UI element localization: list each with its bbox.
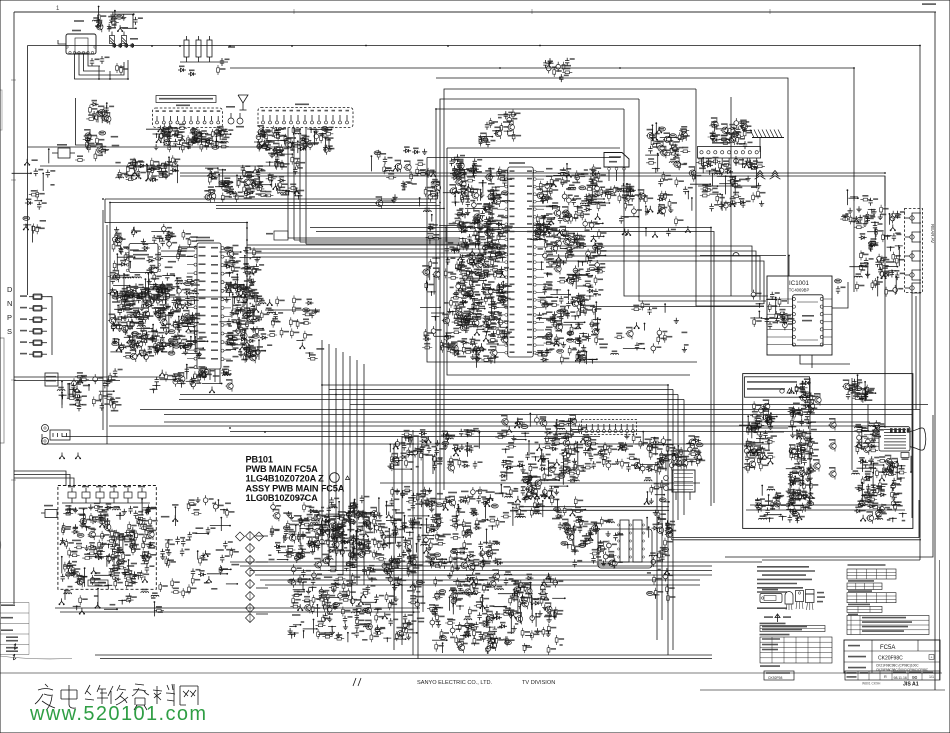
wire [101,113,103,123]
resistor [323,132,333,135]
wire [224,190,232,192]
resistor [178,247,181,257]
resistor [463,319,473,322]
wire [183,326,194,328]
transistor [422,267,430,278]
label [259,181,264,183]
resistor [247,293,257,296]
svg-text:ASSY PWB MAIN FC5A: ASSY PWB MAIN FC5A [246,484,345,494]
ground [192,135,197,141]
wire mid long pair a [109,425,885,427]
capacitor [736,126,740,134]
wire IC201 feeder left b [109,203,111,321]
ground [146,290,150,296]
resistor [594,246,604,249]
diode [119,263,127,267]
label [538,248,543,250]
capacitor [71,383,75,391]
electrolytic capacitor [593,242,598,252]
ground [391,197,396,203]
wire [178,246,195,248]
resistor [96,136,99,146]
transistor [498,293,506,304]
resistor [67,397,77,400]
resistor [757,189,760,199]
resistor [453,172,463,175]
label [115,234,120,236]
inductor [176,283,184,284]
svg-text:W801 CK9H: W801 CK9H [862,682,881,686]
wire [115,13,134,15]
wire [543,217,545,235]
capacitor [658,179,662,187]
label [229,196,232,198]
junction [98,78,100,80]
transistor [550,243,558,254]
capacitor [479,297,483,305]
label [574,235,582,237]
IC201 video chroma IC body [197,243,221,369]
wire [762,317,776,319]
capacitor [122,304,126,312]
electrolytic capacitor [543,251,548,261]
resistor [658,204,661,214]
wire [271,153,292,155]
wire [123,274,125,293]
capacitor [462,169,466,177]
wire IC601 frame top a [427,157,620,159]
resistor [243,168,246,178]
label [250,266,254,268]
ground [484,228,489,234]
electrolytic capacitor [111,321,116,331]
label [265,149,270,151]
resistor [266,138,269,148]
wire IC201 top bus d [216,208,444,210]
wire IC201 bottom drops [199,369,201,376]
label [172,375,175,377]
resistor [572,273,582,276]
wire [186,380,192,382]
capacitor [683,186,687,194]
resistor [467,268,470,278]
transistor [471,317,479,328]
resistor [230,338,240,341]
wire [215,136,217,146]
ground [668,207,673,213]
ground [125,291,129,297]
wire [245,273,253,275]
resistor [303,139,306,149]
resistor [488,339,498,342]
resistor [156,311,166,314]
resistor [291,141,294,151]
wire right edge bundle b [915,296,917,410]
label [460,227,464,229]
wire [328,139,330,148]
electrolytic capacitor [472,200,477,210]
capacitor [559,296,563,304]
ground [158,126,162,132]
resistor [418,172,428,175]
resistor [262,128,265,138]
ground [478,215,482,221]
capacitor [150,335,154,343]
junction [470,349,478,353]
capacitor [566,301,570,309]
resistor [471,336,474,346]
capacitor [540,196,544,204]
electrolytic capacitor [783,320,788,330]
electrolytic capacitor [499,282,504,292]
svg-text:CK92F98: CK92F98 [768,676,782,680]
label [739,178,747,180]
diode [590,172,598,176]
capacitor [465,325,469,333]
capacitor [454,290,458,298]
resistor [237,293,240,303]
ground [158,339,163,345]
resistor [427,168,430,178]
resistor [595,270,605,273]
capacitor [537,312,541,320]
resistor [181,313,184,323]
svg-text:CK20F98C: CK20F98C [878,656,903,662]
capacitor [231,260,235,268]
label [148,346,155,348]
label [281,194,288,196]
resistor [189,132,199,135]
transistor [129,341,137,352]
resistor [536,214,539,224]
ground [173,159,178,165]
SIF box pins [126,247,129,250]
capacitor [186,141,190,149]
label [186,318,194,320]
ground [549,218,553,224]
label [184,320,188,322]
transistor [728,134,736,145]
resistor [292,125,295,135]
resistor [122,307,132,310]
wire [110,351,121,353]
line filter L104 [207,40,212,57]
ground [682,347,687,353]
capacitor [193,338,197,346]
wire [456,169,469,171]
degauss posistor box [58,148,70,158]
electrolytic capacitor [562,191,567,201]
wire [496,175,504,177]
wire [585,352,587,364]
resistor [244,174,254,177]
resistor [253,247,256,257]
transistor [658,206,666,217]
resistor [482,281,485,291]
capacitor [147,167,151,175]
wire [168,313,170,332]
capacitor [465,242,469,250]
resistor [168,142,171,152]
transistor [462,314,470,325]
label [241,359,247,361]
diode [468,312,476,316]
resistor [474,228,477,238]
resistor [199,139,209,142]
diode [673,153,681,157]
capacitor [465,243,469,251]
ground [458,285,462,291]
wire [194,327,196,340]
resistor [561,177,564,187]
electrolytic capacitor [431,326,436,336]
label [495,340,498,342]
resistor [258,194,268,197]
diode [170,169,178,173]
resistor [87,143,90,153]
capacitor [621,183,625,191]
wire tuner loop 4 [88,54,100,66]
wire [664,304,666,313]
ground [465,209,470,215]
capacitor [192,131,196,139]
IC201 left pins [194,246,197,249]
filter FL601 [228,118,234,124]
wire bus pack b [250,248,505,250]
diode [167,344,175,348]
transistor [226,381,234,392]
electrolytic capacitor [507,115,512,125]
resistor [711,160,721,163]
wire tuner loop 3 [84,54,106,71]
wire [478,220,480,240]
ground [488,254,493,260]
wire [592,255,605,257]
wire [498,114,516,116]
capacitor [113,368,117,376]
label [504,227,512,229]
test point [321,127,328,131]
label [496,292,503,294]
wire [477,216,479,230]
test point [184,282,191,286]
resistor [176,128,179,138]
label [595,201,603,203]
junction [601,193,609,197]
diode [482,274,490,278]
resistor [177,251,180,261]
diode [91,103,99,107]
wire [484,288,494,290]
junction [559,261,567,265]
ground [110,288,114,294]
ground [157,315,162,321]
diode [541,358,549,362]
sheet bottom rule [0,672,942,674]
transistor [554,238,562,249]
electrolytic capacitor [566,195,571,205]
resistor [86,118,96,121]
label [244,280,249,282]
junction [455,351,463,355]
resistor [118,170,121,180]
resistor [276,183,279,193]
resistor [292,304,295,314]
wire [589,198,604,200]
ground [168,309,173,315]
capacitor [635,342,639,350]
test point [495,252,502,256]
resistor [662,153,672,156]
ground [457,168,462,174]
ground [627,185,632,191]
capacitor [103,380,107,388]
junction [428,292,436,296]
resistor [457,281,467,284]
resistor [663,333,666,343]
cap can 2 [122,36,127,44]
inductor [568,187,576,188]
label [176,104,190,106]
capacitor [157,162,161,170]
inductor [452,250,460,251]
capacitor [156,292,160,300]
capacitor [488,207,492,215]
label [742,163,747,165]
label [624,198,628,200]
capacitor [185,366,189,374]
wire IC201 feeder left a [105,199,248,223]
capacitor [233,191,237,199]
wire [491,298,493,317]
diode [460,300,468,304]
ground [595,213,599,219]
capacitor [471,284,475,292]
wire [114,11,116,28]
junction [451,250,459,254]
resistor [472,303,482,306]
capacitor [589,176,593,184]
wire h409 line [140,410,920,538]
wire bottom bus b3 [250,570,712,572]
wire [766,299,776,301]
wire IC201 top bus b [110,202,436,204]
ground [554,340,558,346]
junction [307,129,315,133]
ground [197,351,202,357]
transistor [449,186,457,197]
wire [498,296,504,298]
ground [713,168,718,174]
svg-text:TV DIVISION: TV DIVISION [522,680,555,686]
label [481,226,487,228]
wire [182,352,200,354]
label [190,330,199,332]
resistor [126,290,129,300]
ground [273,183,277,189]
wire bottom-left feeder b [14,475,70,487]
transistor [578,352,586,363]
resistor [168,124,171,134]
diode [138,164,146,168]
transistor [486,239,494,250]
label [593,221,598,223]
capacitor [111,397,115,405]
tuner TU101 [66,34,96,54]
ground [550,316,555,322]
ground [431,170,435,176]
label [229,284,236,286]
capacitor [167,134,171,142]
wire [426,283,428,291]
connector CN102 dashed outline [153,108,223,128]
junction [449,312,457,316]
electrolytic capacitor [160,281,165,291]
svg-text:PWB MAIN FC5A: PWB MAIN FC5A [246,464,319,474]
resistor [460,192,463,202]
label [151,278,160,280]
connector CN102 pins [156,121,159,124]
wire [146,128,166,130]
resistor [562,62,565,72]
inductor [424,211,432,212]
wire [161,342,180,344]
resistor [457,303,460,313]
transistor [451,343,459,354]
resistor [719,138,729,141]
IC601 jungle IC body [508,167,533,357]
label [111,410,119,412]
label [224,136,230,138]
wire [164,289,166,304]
wire [690,183,710,185]
resistor [662,172,665,182]
ground [157,136,161,142]
wire bundle to right board a [310,228,711,507]
wire bundle to right board b [316,232,714,504]
electrolytic capacitor [583,219,588,229]
wire [158,286,179,288]
capacitor [118,246,122,254]
wire [567,290,569,300]
resistor [251,295,261,298]
resistor [727,179,737,182]
junction [431,317,439,321]
wire center riser c [677,395,679,521]
junction [294,196,302,200]
junction [266,162,274,166]
svg-text:REAR AV: REAR AV [930,224,935,243]
resistor [156,175,166,178]
wire bottom-left feeder a [14,471,66,486]
capacitor [34,168,38,176]
resistor [164,287,174,290]
resistor [440,340,443,350]
inductor [580,203,588,204]
capacitor [765,316,769,324]
wire [742,130,751,132]
ground [576,293,581,299]
label [244,263,248,265]
capacitor [256,169,260,177]
resistor [675,177,678,187]
transistor [457,160,465,171]
transistor [489,347,497,358]
ground [557,229,561,235]
ground [470,248,474,254]
electrolytic capacitor [444,333,449,343]
wire right edge bundle a [911,292,913,415]
